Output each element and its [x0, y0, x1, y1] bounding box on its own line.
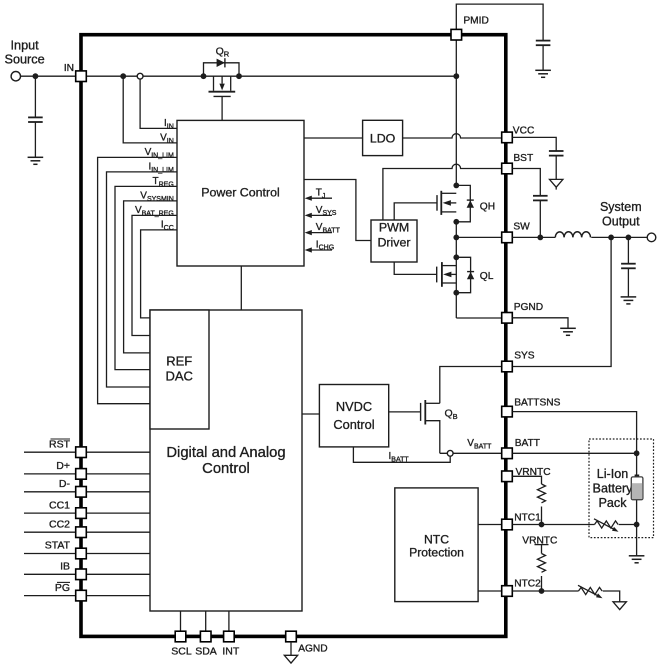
- wire PG internal: [86, 595, 150, 597]
- wire BST external: [512, 169, 540, 196]
- label I_CC: [161, 220, 174, 232]
- wire VRNTC stub: [541, 545, 543, 554]
- svg-text:SYS: SYS: [514, 351, 535, 362]
- svg-text:NTC1: NTC1: [514, 513, 541, 524]
- transistor QH mosfet: [437, 191, 456, 215]
- svg-text:Pack: Pack: [599, 496, 628, 510]
- pin BATT: [502, 448, 513, 459]
- LDO label: [370, 131, 396, 145]
- system output terminal: [647, 233, 656, 242]
- Digital and Analog Control label: [166, 445, 285, 477]
- node Q_R left: [201, 73, 207, 79]
- VCC label: [513, 125, 535, 136]
- wire NTC2 external: [512, 590, 578, 592]
- wire Q_R gate: [221, 96, 223, 120]
- wire PMID external: [456, 4, 543, 41]
- wire V_IN_LIM bus: [98, 157, 177, 403]
- node QH drain: [453, 183, 459, 189]
- transistor QL mosfet: [437, 262, 457, 287]
- wire V_BAT_REG bus: [132, 215, 177, 335]
- NTC2 label: [514, 579, 541, 590]
- svg-text:Driver: Driver: [377, 235, 410, 249]
- svg-text:Digital and Analog: Digital and Analog: [166, 445, 285, 461]
- svg-text:QH: QH: [480, 202, 495, 213]
- node battery bottom junction: [634, 522, 640, 528]
- node input junction: [33, 73, 39, 79]
- inductor L1: [555, 232, 590, 238]
- wire I_IN_LIM bus: [107, 172, 178, 387]
- svg-text:Control: Control: [202, 461, 250, 477]
- pin INT: [224, 631, 235, 642]
- wire LDO to VCC: [403, 134, 502, 138]
- wire V_BATT feedback: [305, 230, 332, 235]
- pin Dplus: [76, 469, 87, 480]
- svg-text:PWM: PWM: [379, 221, 409, 235]
- wire BATT external: [512, 452, 636, 454]
- wire SYS internal: [440, 367, 502, 404]
- VRNTC label: [516, 467, 551, 478]
- diode QH body: [467, 200, 474, 208]
- svg-text:REF: REF: [166, 354, 192, 369]
- svg-text:IN: IN: [64, 63, 74, 74]
- wire T_REG bus: [115, 186, 177, 369]
- node NTC1 junction: [539, 522, 545, 528]
- resistor VRNTC pullup: [538, 484, 546, 503]
- wire NTC1 internal: [478, 524, 502, 526]
- wire PC to PWM driver: [304, 180, 371, 241]
- pin BST: [502, 163, 513, 174]
- SCL label: [171, 646, 192, 658]
- svg-text:Output: Output: [602, 215, 640, 229]
- label V_IN: [160, 133, 174, 145]
- label I_CHG: [316, 239, 334, 251]
- pin VCC: [502, 132, 513, 143]
- wire IBATT sense: [353, 447, 450, 462]
- svg-text:System: System: [600, 200, 642, 214]
- wire SYS external: [512, 237, 611, 366]
- svg-text:RST: RST: [49, 438, 71, 450]
- wire BATTSNS external: [512, 412, 636, 454]
- block REF DAC: [150, 310, 209, 429]
- wire VCC external: [512, 137, 556, 151]
- svg-text:Input: Input: [10, 39, 39, 53]
- label V_SYS: [316, 205, 337, 217]
- node PMID rail junction: [453, 73, 459, 79]
- ground VCC triangle: [550, 179, 563, 189]
- pin CC1: [76, 508, 87, 519]
- wire STAT external: [24, 553, 76, 555]
- wire PMID internal vertical: [455, 40, 457, 185]
- svg-text:PMID: PMID: [463, 15, 488, 26]
- wire SW external: [512, 236, 555, 238]
- node BATT junction: [634, 450, 640, 456]
- node BST cap junction: [537, 235, 543, 241]
- System Output label: [600, 200, 642, 229]
- svg-text:Battery: Battery: [593, 481, 634, 495]
- label V_BAT_REG: [135, 205, 174, 217]
- ground PMID cap: [535, 70, 551, 77]
- svg-text:Source: Source: [4, 53, 44, 67]
- node SYS output junction: [608, 235, 614, 241]
- transistor Q_R body-diode loop: [204, 63, 240, 76]
- wire T_J feedback: [305, 196, 332, 201]
- resistor VRNTC2 pullup: [538, 554, 546, 573]
- wire AGND external: [290, 642, 292, 656]
- pin VRNTC: [502, 471, 513, 482]
- pin SDA: [200, 631, 211, 642]
- svg-text:Control: Control: [333, 417, 374, 432]
- wire Dminus external: [24, 491, 76, 493]
- diode Q_R body: [217, 58, 225, 67]
- svg-text:STAT: STAT: [45, 540, 71, 552]
- VBATT label: [467, 438, 492, 450]
- wire CC1 external: [24, 512, 76, 514]
- diode QL body: [467, 272, 474, 280]
- block Power Control U1: [177, 120, 304, 266]
- capacitor output: [621, 237, 636, 297]
- wire NTC2 internal: [478, 590, 502, 592]
- CC1 label: [49, 499, 70, 511]
- node QH source: [453, 219, 459, 225]
- diode QH body loop: [456, 185, 470, 221]
- wire I_CC bus: [141, 230, 177, 318]
- node VIN tap: [120, 73, 126, 79]
- wire inductor to output: [591, 236, 647, 238]
- node SW junction: [453, 235, 459, 241]
- wire PG external: [24, 595, 76, 597]
- svg-text:PG: PG: [55, 582, 70, 594]
- Q_R label: [216, 45, 230, 58]
- ground battery: [629, 556, 645, 563]
- svg-text:D+: D+: [56, 460, 70, 472]
- pin IB: [76, 569, 87, 580]
- Li-Ion Battery Pack label: [593, 467, 634, 510]
- pin SYS: [502, 361, 513, 372]
- wire battery vertical: [636, 453, 638, 524]
- svg-text:NTC2: NTC2: [514, 579, 541, 590]
- wire IB external: [24, 573, 76, 575]
- pin PGND: [502, 313, 513, 324]
- wire Dplus internal: [86, 473, 150, 475]
- wire digital to NVDC: [302, 413, 319, 415]
- QL label: [480, 271, 494, 282]
- PWM Driver label: [377, 221, 410, 250]
- Power Control label: [201, 186, 280, 200]
- label T_J: [316, 188, 326, 200]
- CC2 label: [49, 518, 70, 530]
- pin SCL: [175, 631, 186, 642]
- wire NTC1 external: [512, 524, 594, 526]
- thermistor NTC2: [578, 585, 603, 598]
- wire NTC2 to ground: [603, 591, 620, 602]
- capacitor PMID: [536, 41, 551, 71]
- node QL source: [453, 290, 459, 296]
- IBATT label: [389, 451, 410, 463]
- svg-text:QL: QL: [480, 271, 494, 282]
- block NVDC Control: [319, 385, 388, 447]
- ground AGND triangle: [284, 655, 297, 663]
- PGND label: [514, 302, 543, 313]
- label I_IN: [164, 118, 174, 130]
- wire QH gate: [394, 203, 437, 220]
- svg-text:DAC: DAC: [165, 368, 192, 383]
- wire QL gate: [394, 262, 437, 274]
- wire RST external: [24, 451, 76, 453]
- wire VRNTC external: [512, 476, 541, 484]
- pin RST: [76, 447, 87, 458]
- NTC1 label: [514, 513, 541, 524]
- wire V_SYSMIN bus: [124, 201, 177, 353]
- wire BST internal: [383, 164, 502, 220]
- wire PC to LDO: [304, 137, 363, 139]
- VRNTC net label: [522, 535, 557, 546]
- label V_SYSMIN: [140, 191, 174, 203]
- wire VIN sense: [123, 76, 177, 143]
- node NTC2 junction: [539, 588, 545, 594]
- IN label: [64, 63, 74, 74]
- block PWM Driver: [371, 220, 417, 262]
- svg-text:NVDC: NVDC: [336, 399, 372, 414]
- svg-text:VCC: VCC: [513, 125, 535, 136]
- pin CC2: [76, 527, 87, 538]
- wire PGND external: [512, 318, 568, 329]
- REF DAC label: [165, 354, 192, 384]
- Li-Ion battery pack dashed box: [589, 439, 654, 538]
- input source terminal: [11, 72, 20, 81]
- wire PGND internal: [456, 317, 501, 319]
- wire PC to digital: [240, 266, 242, 310]
- svg-text:Power Control: Power Control: [201, 186, 280, 200]
- label V_BATT: [316, 222, 341, 234]
- wire QH-QL vertical: [455, 222, 457, 318]
- svg-text:Protection: Protection: [409, 546, 464, 560]
- NVDC Control label: [333, 399, 374, 432]
- SW label: [513, 221, 530, 232]
- wire RST internal: [86, 451, 150, 453]
- PMID label: [463, 15, 488, 26]
- wire thermistor to battery: [619, 524, 637, 526]
- node IIN tap circle: [137, 73, 143, 79]
- wire battery to ground: [636, 525, 638, 556]
- svg-text:SCL: SCL: [171, 646, 192, 658]
- pin AGND: [286, 631, 297, 642]
- svg-text:SW: SW: [513, 221, 530, 232]
- svg-text:SDA: SDA: [195, 646, 217, 658]
- node output cap junction: [626, 235, 632, 241]
- NTC Protection label: [409, 533, 464, 560]
- wire CC1 internal: [86, 512, 150, 514]
- svg-text:INT: INT: [222, 646, 240, 658]
- svg-text:NTC: NTC: [424, 533, 449, 547]
- svg-text:BATT: BATT: [515, 438, 540, 449]
- pin PMID: [451, 29, 462, 40]
- diode QL body loop: [456, 257, 470, 292]
- svg-text:BATTSNS: BATTSNS: [514, 398, 560, 409]
- pin BATTSNS: [502, 406, 513, 417]
- pin STAT: [76, 548, 87, 559]
- STAT label: [45, 540, 71, 552]
- wire Dplus external: [24, 473, 76, 475]
- SYS label: [514, 351, 535, 362]
- label I_IN_LIM: [148, 162, 174, 174]
- Dplus label: [56, 460, 70, 472]
- wire INT internal: [228, 611, 230, 631]
- ground NTC2 triangle: [613, 602, 626, 610]
- wire CC2 external: [24, 531, 76, 533]
- svg-text:CC1: CC1: [49, 499, 70, 511]
- block Digital and Analog Control: [150, 310, 302, 611]
- node QL drain: [453, 254, 459, 260]
- capacitor BST bootstrap: [533, 196, 548, 238]
- Input Source label: [4, 39, 44, 67]
- ground PGND: [560, 328, 576, 335]
- wire NVDC to QB gate: [389, 411, 421, 413]
- pin PG: [76, 590, 87, 601]
- SDA label: [195, 646, 217, 658]
- pin IN: [76, 71, 87, 82]
- svg-text:IB: IB: [60, 561, 70, 573]
- pin NTC2: [502, 586, 513, 597]
- block LDO: [363, 120, 403, 155]
- BATTSNS label: [514, 398, 560, 409]
- svg-text:AGND: AGND: [298, 644, 327, 655]
- AGND label: [298, 644, 327, 655]
- INT label: [222, 646, 240, 658]
- pin Dminus: [76, 487, 87, 498]
- wire Dminus internal: [86, 491, 150, 493]
- wire SDA internal: [205, 611, 207, 631]
- transistor Q_R mosfet: [209, 76, 236, 96]
- BATT label: [515, 438, 540, 449]
- node Q_R right: [236, 73, 242, 79]
- label V_IN_LIM: [145, 147, 174, 159]
- wire IIN sense: [140, 76, 177, 128]
- wire input rail: [21, 75, 457, 77]
- BST label: [513, 153, 533, 164]
- transistor QB mosfet: [421, 400, 440, 453]
- thermistor NTC1: [594, 519, 619, 532]
- IB label: [60, 561, 70, 573]
- wire CC2 internal: [86, 531, 150, 533]
- wire IB internal: [86, 573, 150, 575]
- svg-text:D-: D-: [59, 478, 71, 490]
- svg-text:PGND: PGND: [514, 302, 543, 313]
- svg-text:LDO: LDO: [370, 131, 396, 145]
- pin SW: [502, 232, 513, 243]
- PG label: [55, 582, 70, 594]
- ground output cap: [621, 297, 637, 304]
- wire SW internal: [456, 236, 501, 238]
- wire V_SYS feedback: [305, 213, 332, 218]
- svg-text:Li-Ion: Li-Ion: [597, 467, 629, 481]
- wire I_CHG feedback: [305, 247, 332, 252]
- svg-text:BST: BST: [513, 153, 533, 164]
- wire resistor to NTC2: [541, 576, 543, 591]
- Dminus label: [59, 478, 71, 490]
- label T_REG: [153, 176, 174, 188]
- block NTC Protection: [395, 488, 478, 602]
- svg-text:CC2: CC2: [49, 518, 70, 530]
- capacitor VCC: [549, 151, 564, 179]
- wire STAT internal: [86, 553, 150, 555]
- QB label: [445, 408, 458, 421]
- capacitor input C1: [28, 76, 43, 157]
- wire resistor to NTC1: [541, 507, 543, 525]
- IC boundary box: [81, 35, 506, 637]
- ground input cap: [28, 157, 44, 164]
- QH label: [480, 202, 495, 213]
- RST label: [49, 438, 71, 450]
- pin NTC1: [502, 519, 513, 530]
- wire BATT internal: [440, 452, 502, 454]
- wire SCL internal: [180, 611, 182, 631]
- battery cell icon: [631, 475, 643, 500]
- node VBATT tap circle: [447, 450, 453, 456]
